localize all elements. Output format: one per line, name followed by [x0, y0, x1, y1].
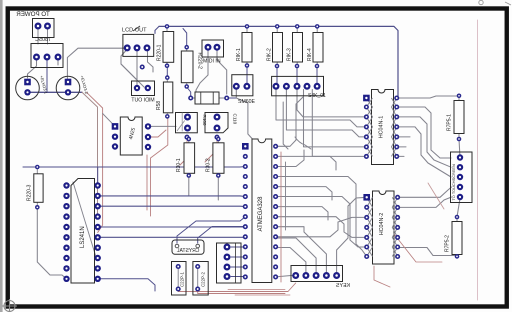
wire ATMEGA pin28 up right — [276, 97, 303, 146]
wire bus end to LS241N vertical A — [82, 92, 98, 216]
wire ATMEGA right y186 — [276, 187, 332, 200]
wire R56 to SM60E — [227, 97, 236, 99]
capacitor C22P-1 — [172, 262, 187, 296]
wire RIK-2 to S4K pin1 — [276, 66, 278, 83]
svg-text:CRYSTAL: CRYSTAL — [176, 248, 199, 254]
connector KEYS — [291, 266, 350, 290]
svg-text:MIDI OUT: MIDI OUT — [130, 98, 154, 104]
wire R220-3 lead — [36, 167, 38, 207]
wire LS241N to ATMEGA net4 — [98, 236, 246, 238]
svg-text:HC04N-1: HC04N-1 — [379, 116, 385, 138]
wire C22P grounds red — [178, 283, 296, 292]
wire ATMEGA right to HC04N-2 nest3 — [276, 217, 367, 238]
resistor R220-2 — [181, 45, 202, 89]
wire R220-2 top to bus — [183, 29, 187, 48]
svg-text:C22P-2: C22P-2 — [201, 272, 206, 287]
resistor R7P5-1 — [447, 94, 465, 142]
wire RIK-4 lead — [316, 26, 318, 66]
wire ISP pad3 to ATMEGA — [231, 266, 245, 268]
wire RIK-1 lead — [246, 26, 248, 65]
wire crystal pin2 to ATMEGA — [198, 227, 246, 244]
IC HC04N-1 — [363, 90, 399, 165]
wire R30-1 bottom down — [188, 176, 190, 197]
svg-text:TO TOUCHSCREEN: TO TOUCHSCREEN — [451, 164, 456, 201]
wire diagonal through LS241N — [73, 182, 96, 257]
resistor R30-1 — [176, 137, 195, 178]
svg-text:R220-1: R220-1 — [157, 44, 163, 61]
wire red vertical along ATMEGA right — [280, 152, 282, 282]
fiducial bottom-left — [2, 299, 17, 312]
wire connector mid pin down between caps — [46, 59, 48, 92]
wire R7P5-2 top to touchscreen — [457, 199, 460, 218]
wire KEYS pin5 up right — [337, 197, 366, 272]
wire R220-1 lead — [166, 27, 168, 66]
via below LCD-OUT — [140, 64, 145, 69]
resistor RIK-3 — [287, 24, 303, 68]
wire ATMEGA right to HC04N-2 nest1 — [276, 177, 367, 257]
wire LCD-OUT bend to bus — [155, 26, 159, 33]
wire ELKO3-2 to LCD-OUT — [67, 48, 126, 79]
connector ISP — [217, 243, 242, 283]
svg-text:RIK-1: RIK-1 — [236, 48, 242, 61]
wire connector pin to ELKO3-1 — [28, 59, 37, 78]
capacitor C110 — [205, 113, 238, 133]
wire KEYS pin4 up — [276, 227, 327, 272]
wire mid vertical to ATMEGA corner — [283, 102, 288, 149]
wire HC04N-1 right to touchscreen 1 — [397, 107, 451, 158]
connector S4K-01 — [272, 76, 326, 99]
wire HC04N-1 right to touchscreen 3 — [397, 127, 451, 177]
resistor R220-1 — [157, 24, 174, 68]
capacitor ELKO3-1 — [16, 75, 49, 100]
capacitor ELKO3-2 — [56, 75, 89, 100]
wire red under ATMEGA bottom — [228, 289, 290, 295]
wire S4K pin2 down to HC04N-1 — [286, 90, 366, 137]
wire R56 lead — [191, 97, 227, 99]
wire rounded elbow right of ATMEGA — [295, 137, 311, 149]
wire ISP pad1 to ATMEGA — [231, 246, 245, 248]
wire MIDI-IN pin1 down — [196, 49, 208, 97]
wire S4K pin1 down to HC04N-1 — [276, 90, 366, 127]
wire 4N25 right to R100 — [148, 125, 176, 127]
svg-text:LS241N: LS241N — [80, 226, 86, 248]
wire LCD pad1 down diagonal — [121, 50, 144, 87]
connector MIDI-IN — [202, 40, 224, 65]
wire power conn pin1 lead — [37, 27, 39, 44]
svg-text:R30-1: R30-1 — [176, 158, 182, 172]
wire R7P5-2 lead — [456, 217, 458, 256]
wire R7P5-1 lead — [458, 96, 460, 139]
svg-text:RIK-2: RIK-2 — [267, 48, 273, 61]
wire bus end to LS241N vertical B — [87, 92, 103, 232]
regulator 7805 connector — [31, 44, 63, 68]
wire midi-out area diagonal — [121, 64, 137, 84]
wire S4K pin3 down right — [297, 90, 366, 117]
svg-text:C110: C110 — [233, 114, 238, 125]
wire RIK-2 lead — [276, 26, 278, 66]
IC ATMEGA328 — [242, 139, 278, 283]
via below C110 — [214, 135, 219, 140]
wire HC04N-2 right to R7P5-2 — [398, 248, 457, 256]
wire red below HC04N-2 right — [394, 234, 442, 262]
wire R220-3 top long horizontal — [23, 166, 245, 169]
svg-text:SM60E: SM60E — [238, 99, 256, 105]
connector TO TOUCHSCREEN — [451, 152, 473, 203]
wire red right side vertical — [477, 20, 479, 300]
wire R220-2 bottom to R56 pad — [187, 87, 191, 98]
wire LS241N pin top to net167 — [97, 167, 99, 186]
resistor RIK-2 — [267, 24, 283, 68]
wire C22P-1 lead — [177, 267, 179, 290]
wire VCC top bus — [159, 26, 398, 96]
wire KEYS pin3 up — [276, 238, 317, 272]
wire red R58 bottom down — [151, 117, 168, 216]
wire crystal pin1 to ATMEGA — [177, 217, 245, 243]
wire red bundle near touchscreen — [428, 183, 444, 209]
wire LS241N to ATMEGA net2 — [98, 205, 246, 207]
resistor R56 horizontal — [188, 92, 229, 104]
wire SM60E pin1 down to ATMEGA — [236, 89, 252, 139]
wire R58 lead — [166, 78, 168, 117]
svg-text:KEYS: KEYS — [336, 283, 350, 289]
fiducial top-right — [479, 0, 511, 5]
wire LCD pad2 to MIDI-OUT — [136, 50, 138, 85]
wire ATMEGA right to HC04N-2 nest2 — [276, 197, 367, 248]
wire HC04N-1 right short stubs — [397, 137, 410, 157]
wire ATMEGA right mid short — [276, 156, 336, 170]
wire RIK-3 lead — [296, 26, 298, 66]
svg-text:TO POWER: TO POWER — [16, 11, 50, 18]
wire R220-3 bottom to LS241N — [37, 207, 66, 278]
wire HC04N-1 right pin to R7P5-1 — [397, 96, 459, 98]
wire via R100 down red — [180, 139, 187, 165]
IC HC04N-2 — [363, 191, 400, 264]
wire via C110 down red — [205, 139, 217, 162]
resistor R30-2 — [206, 137, 225, 178]
label LCD OUT — [122, 26, 147, 34]
wire red below HC04N-2 — [374, 266, 390, 287]
connector J-POWER — [33, 19, 55, 38]
svg-text:HC04N-2: HC04N-2 — [379, 213, 385, 235]
wire connector pin3 lead — [57, 59, 59, 65]
wire C22P-2 lead — [197, 267, 199, 290]
wire HC04N-2 right to touchscreen 4 — [398, 187, 452, 197]
wire LS241N to ATMEGA net3 — [98, 226, 246, 228]
svg-text:R30-2: R30-2 — [206, 158, 212, 172]
wire HC04N-2 right to touchscreen 5 — [398, 197, 452, 207]
wire S4K pin4 down to HC04N-1 — [304, 90, 367, 147]
wire R30-2 lead — [217, 139, 219, 176]
wire ATMEGA right y166 up — [276, 150, 304, 167]
wire 4N25 pin1 stub — [103, 114, 115, 127]
wire KEYS pin2 up — [276, 248, 306, 273]
capacitor C22P-2 — [193, 262, 208, 296]
wire ATMEGA pin15 to KEYS pin1 — [276, 276, 296, 277]
svg-text:RIK-4: RIK-4 — [307, 48, 313, 61]
wire RIK-1 to SM60E pin2 — [246, 66, 248, 84]
wire R7P5-1 bottom to touchscreen — [459, 139, 460, 158]
wire ISP pad2 to ATMEGA — [231, 256, 245, 258]
svg-text:7805C: 7805C — [35, 37, 51, 43]
wire ISP pad4 to ATMEGA — [231, 276, 245, 278]
wire power conn pin2 lead — [47, 27, 49, 44]
svg-text:RIK-3: RIK-3 — [287, 48, 293, 61]
wire RIK-3 to S4K pin3 — [296, 66, 298, 83]
wire ATMEGA right y206 — [276, 207, 328, 220]
resistor R7P5-2 — [445, 215, 463, 259]
left scan edge strip — [0, 0, 3, 312]
svg-text:R220-3: R220-3 — [27, 184, 33, 201]
connector MIDI-OUT — [130, 81, 154, 104]
wire ATMEGA right to HC04N-2 nest4 — [276, 217, 367, 236]
wire red below 4N25 — [146, 155, 148, 210]
crystal CRYSTAL — [172, 240, 204, 254]
wire gray vertical near ATMEGA right — [285, 162, 287, 230]
wire R30-1 lead — [188, 139, 190, 176]
via below R100 — [184, 135, 189, 140]
wire HC04N-1 right to touchscreen 2 — [397, 117, 451, 167]
wire R220-1 to R58 — [166, 66, 168, 78]
wire C22P-2 ground red — [198, 289, 285, 294]
connector SM60E — [232, 75, 256, 105]
wire S4K pin5 down to HC04N-1 — [312, 90, 366, 157]
resistor R100 — [176, 113, 208, 133]
wire R220-2 lead — [186, 47, 188, 86]
resistor RIK-4 — [307, 24, 323, 68]
svg-text:C22P-1: C22P-1 — [180, 272, 185, 287]
IC LS241N — [63, 179, 101, 284]
connector LCD-OUT — [123, 34, 154, 56]
wire MIDI-IN pin2 down — [217, 49, 227, 94]
svg-text:R7P5-1: R7P5-1 — [447, 114, 453, 131]
wire power rail through ELKO caps — [28, 91, 83, 93]
wire R30-2 bottom down — [217, 176, 219, 201]
wire 4N25 right pin2 bend — [148, 130, 166, 137]
resistor R58 — [156, 75, 173, 118]
svg-text:ATMEGA328: ATMEGA328 — [258, 196, 264, 232]
svg-text:MIDI IN: MIDI IN — [203, 59, 221, 65]
wire RIK-4 to S4K pin5 — [316, 66, 318, 83]
svg-text:LCD OUT: LCD OUT — [122, 28, 147, 34]
wire LS241N bottom pin right — [98, 279, 155, 291]
resistor R220-3 — [27, 165, 44, 210]
svg-text:S4K_01: S4K_01 — [308, 93, 326, 99]
svg-text:R58: R58 — [156, 101, 162, 110]
svg-text:R7P5-2: R7P5-2 — [445, 235, 451, 252]
wire LCD pad3 down — [148, 50, 154, 72]
resistor RIK-1 — [236, 24, 252, 68]
optocoupler 4N25 — [112, 117, 152, 155]
wire LS241N to ATMEGA net1 — [98, 195, 246, 198]
